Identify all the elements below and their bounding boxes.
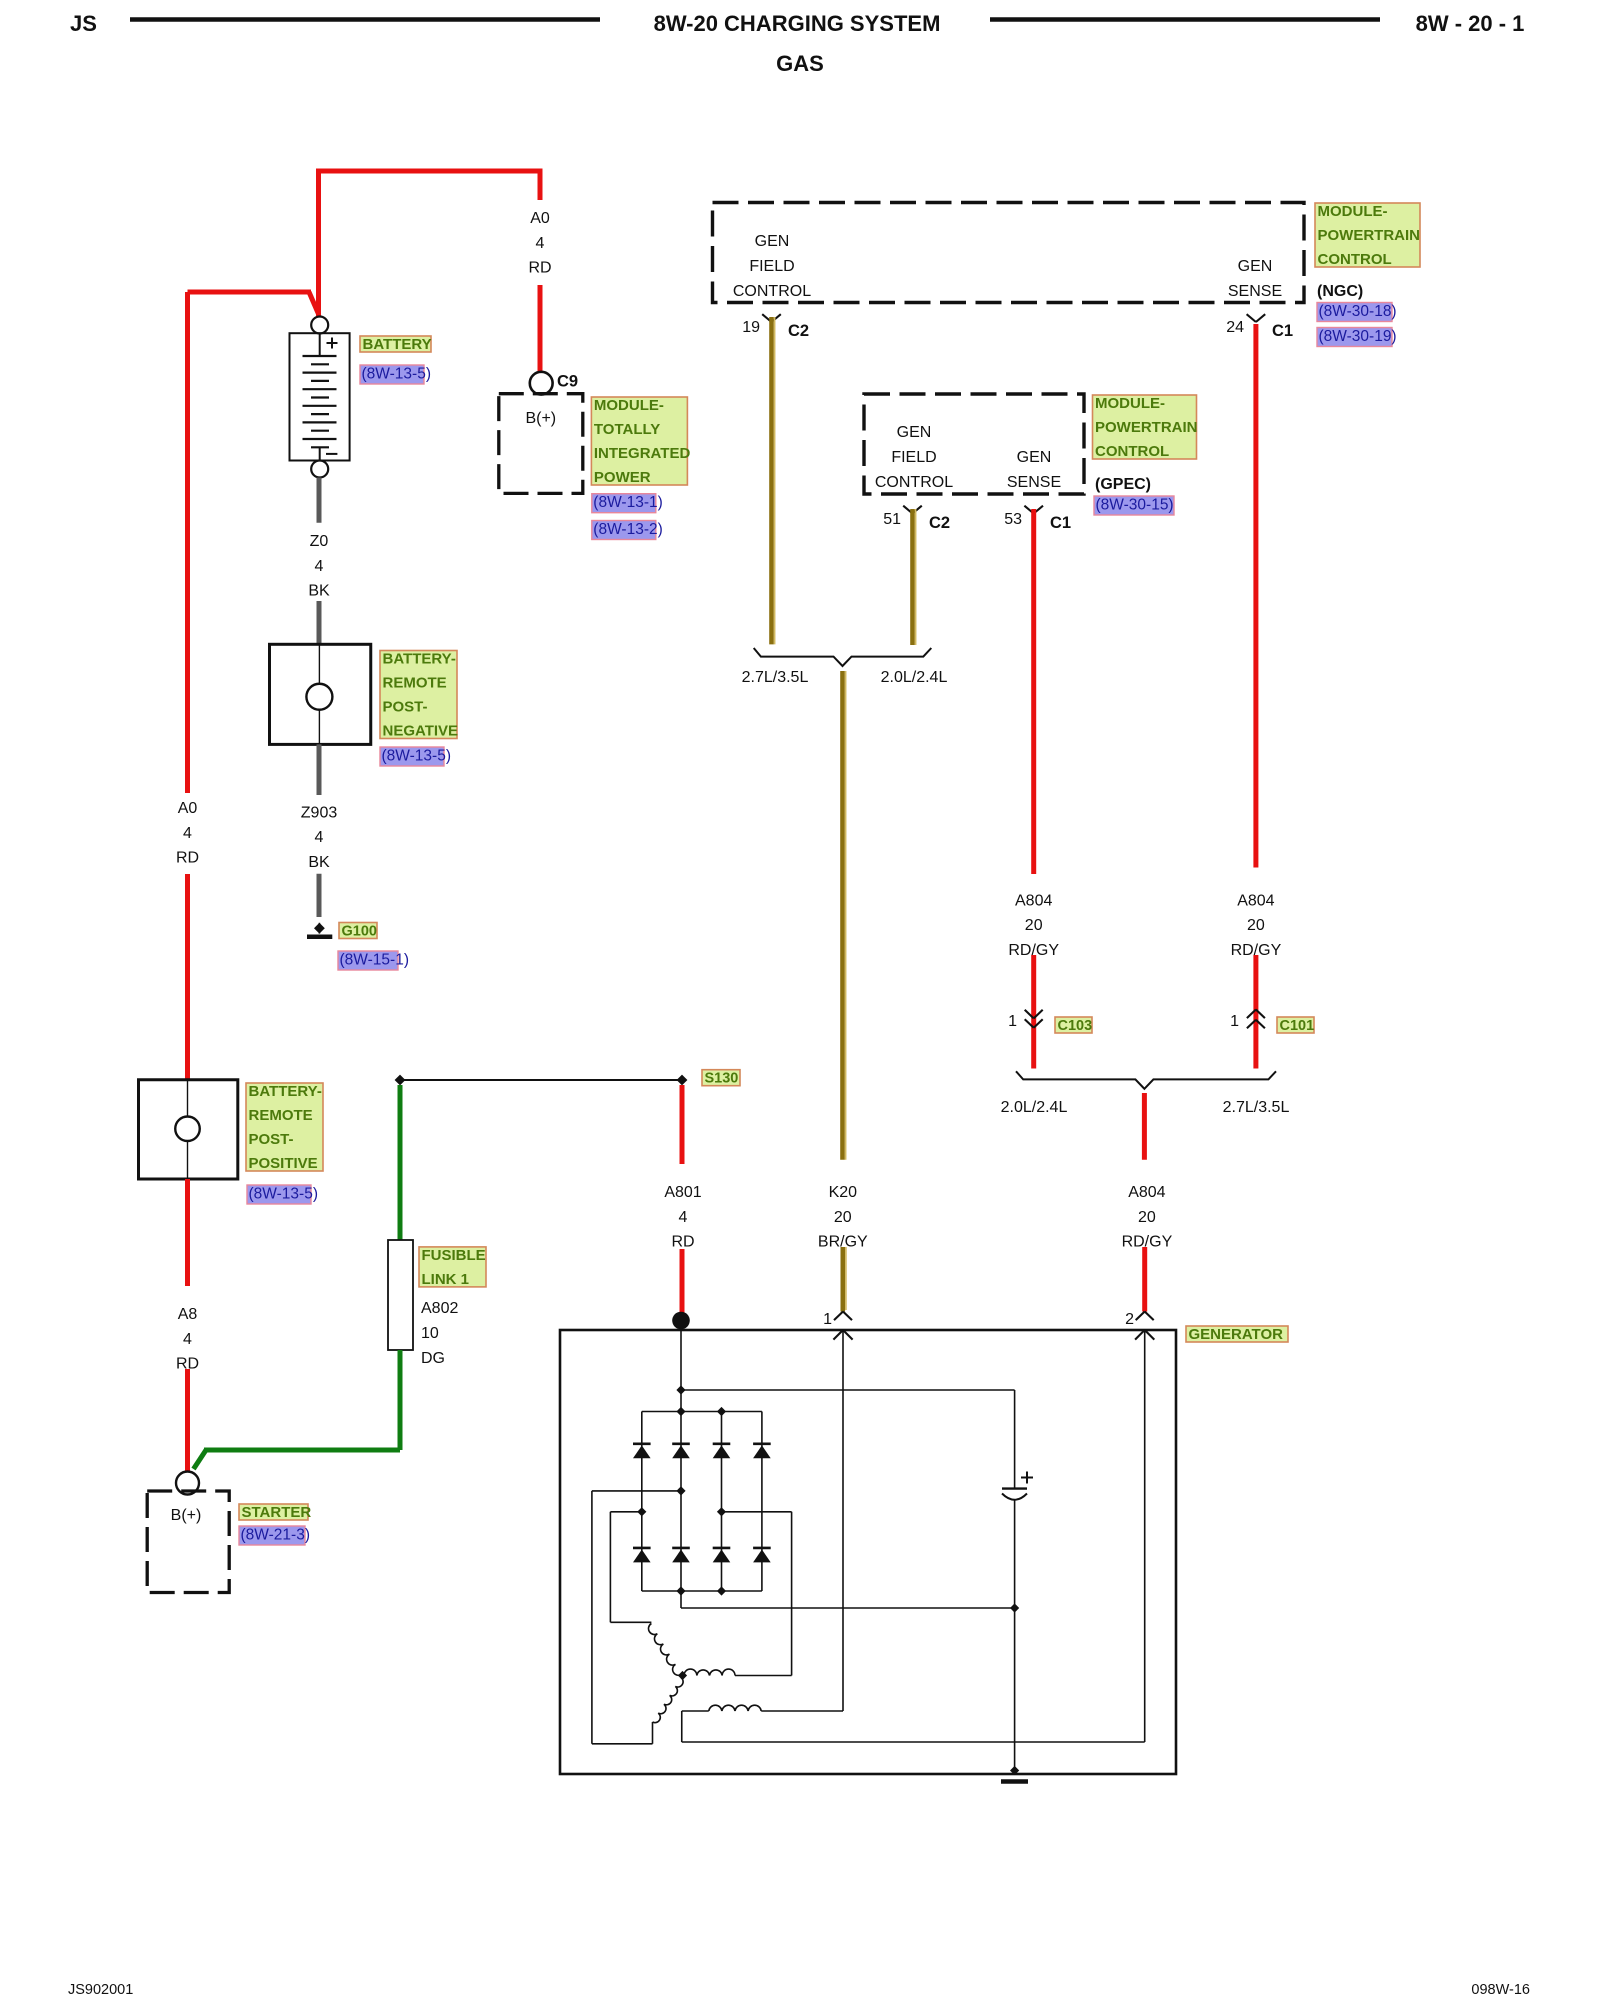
- svg-text:24: 24: [1226, 319, 1244, 336]
- label G100: [339, 923, 377, 939]
- splice S130: [400, 1079, 682, 1081]
- ground G100: [314, 923, 325, 934]
- svg-text:4: 4: [679, 1209, 688, 1226]
- svg-text:2.7L/3.5L: 2.7L/3.5L: [1223, 1099, 1290, 1116]
- generator pin 1 connector: [834, 1312, 843, 1321]
- svg-text:POWER: POWER: [594, 469, 651, 486]
- rectifier diodes top row: [633, 1443, 651, 1446]
- svg-text:C103: C103: [1058, 1018, 1093, 1034]
- pin 53 connector C1: [1024, 506, 1033, 514]
- svg-text:REMOTE: REMOTE: [383, 675, 447, 692]
- module TIPM box: [499, 394, 583, 494]
- wire gen field control from pin 19: [769, 317, 774, 644]
- svg-text:B(+): B(+): [171, 1507, 202, 1524]
- svg-text:(8W-21-3): (8W-21-3): [241, 1526, 310, 1543]
- generator terminal B+ junction: [672, 1312, 690, 1330]
- svg-text:4: 4: [536, 235, 545, 252]
- battery minus sign: [326, 453, 337, 455]
- pin2 internal vertical and field return: [1144, 1330, 1146, 1742]
- svg-text:BK: BK: [308, 583, 330, 600]
- svg-text:A0: A0: [530, 210, 550, 227]
- battery negative terminal: [311, 461, 328, 478]
- svg-text:JS: JS: [70, 11, 97, 36]
- junction capacitor to rectifier return: [1010, 1603, 1019, 1612]
- svg-text:B(+): B(+): [525, 410, 556, 427]
- svg-text:A804: A804: [1015, 892, 1052, 909]
- svg-text:10: 10: [421, 1325, 439, 1342]
- capacitor C: [1014, 1390, 1016, 1488]
- label BATTERY-REMOTE POST-NEGATIVE: [380, 651, 457, 739]
- capacitor plus sign: [1021, 1477, 1033, 1479]
- label (8W-13-5) positive post: [247, 1185, 311, 1204]
- stator center junction: [678, 1671, 687, 1680]
- svg-text:FUSIBLE: FUSIBLE: [422, 1247, 486, 1264]
- connector C103 inline: [1025, 1010, 1034, 1019]
- capacitor ground drop: [1014, 1608, 1016, 1773]
- svg-text:2.7L/3.5L: 2.7L/3.5L: [742, 669, 809, 686]
- label (8W-30-19): [1317, 328, 1392, 347]
- svg-text:FIELD: FIELD: [891, 449, 936, 466]
- svg-text:BK: BK: [308, 854, 330, 871]
- svg-text:A0: A0: [178, 800, 198, 817]
- pin 51 connector C2: [903, 506, 912, 514]
- stator coil phase 1: [649, 1624, 682, 1676]
- svg-text:4: 4: [315, 558, 324, 575]
- phase tap col1: [637, 1507, 646, 1516]
- label (8W-15-1): [338, 951, 398, 970]
- svg-text:POWERTRAIN: POWERTRAIN: [1095, 419, 1198, 436]
- diode bridge bottom bus: [642, 1590, 762, 1592]
- svg-text:4: 4: [183, 825, 192, 842]
- phase tap col2: [676, 1486, 685, 1495]
- generator box: [560, 1330, 1176, 1774]
- stator coil phase 2: [684, 1669, 735, 1675]
- module PCM GPEC box: [864, 394, 1084, 494]
- label (8W-13-5) negative post: [380, 747, 444, 766]
- diode column verticals: [641, 1412, 643, 1592]
- svg-text:20: 20: [1025, 917, 1043, 934]
- svg-text:CONTROL: CONTROL: [733, 283, 811, 300]
- svg-text:2.0L/2.4L: 2.0L/2.4L: [881, 669, 948, 686]
- label FUSIBLE LINK 1: [419, 1247, 486, 1287]
- svg-text:SENSE: SENSE: [1007, 474, 1061, 491]
- label (8W-30-18): [1317, 303, 1392, 322]
- label MODULE-POWERTRAIN CONTROL GPEC: [1093, 395, 1197, 459]
- svg-text:MODULE-: MODULE-: [594, 397, 664, 414]
- svg-text:A801: A801: [664, 1184, 701, 1201]
- svg-text:4: 4: [183, 1331, 192, 1348]
- wire A802 10 DG lower: [398, 1350, 403, 1450]
- svg-text:C101: C101: [1280, 1018, 1315, 1034]
- label (8W-30-15): [1094, 496, 1174, 515]
- svg-text:(8W-13-2): (8W-13-2): [593, 521, 662, 538]
- svg-text:20: 20: [1247, 917, 1265, 934]
- wire Z903 4 BK: [317, 744, 322, 795]
- wire highlight stripes: [774, 317, 776, 644]
- pin1 internal vertical: [842, 1330, 844, 1711]
- connector C9 circle: [530, 372, 553, 395]
- battery B1: [290, 333, 350, 460]
- svg-text:CONTROL: CONTROL: [1095, 443, 1169, 460]
- label (8W-13-5): [360, 365, 424, 384]
- svg-text:(8W-13-1): (8W-13-1): [593, 494, 662, 511]
- svg-text:INTEGRATED: INTEGRATED: [594, 445, 691, 462]
- svg-text:098W-16: 098W-16: [1471, 1982, 1530, 1998]
- rectifier diodes bottom row: [633, 1547, 651, 1550]
- svg-text:FIELD: FIELD: [749, 258, 794, 275]
- svg-text:A804: A804: [1237, 892, 1274, 909]
- label BATTERY: [360, 336, 431, 352]
- wire A801 4 RD: [680, 1085, 685, 1164]
- svg-text:NEGATIVE: NEGATIVE: [383, 723, 459, 740]
- svg-text:(8W-30-15): (8W-30-15): [1096, 496, 1174, 513]
- svg-text:1: 1: [1230, 1013, 1239, 1030]
- wire K20 20 BR/GY: [840, 671, 845, 1160]
- svg-text:Z903: Z903: [301, 805, 338, 822]
- svg-text:POWERTRAIN: POWERTRAIN: [1318, 227, 1421, 244]
- svg-text:GEN: GEN: [755, 233, 790, 250]
- svg-text:GAS: GAS: [776, 51, 824, 76]
- svg-text:K20: K20: [829, 1184, 858, 1201]
- svg-text:(8W-30-18): (8W-30-18): [1319, 303, 1397, 320]
- svg-text:LINK 1: LINK 1: [422, 1271, 470, 1288]
- battery-remote post-positive block: [139, 1080, 238, 1179]
- phase tap col3: [717, 1507, 726, 1516]
- svg-text:51: 51: [883, 511, 901, 528]
- svg-text:G100: G100: [342, 924, 377, 940]
- junction to capacitor feed: [676, 1385, 685, 1394]
- stator coil phase 3: [653, 1678, 684, 1723]
- engine variant brace top: [754, 648, 932, 666]
- label MODULE-TOTALLY INTEGRATED POWER: [591, 397, 687, 485]
- battery-remote post-negative block: [270, 644, 371, 744]
- svg-text:8W - 20 - 1: 8W - 20 - 1: [1416, 11, 1525, 36]
- svg-text:SENSE: SENSE: [1228, 283, 1282, 300]
- fusible link 1: [388, 1240, 413, 1350]
- wire Z0 4 BK: [317, 478, 322, 523]
- svg-text:C1: C1: [1050, 514, 1071, 532]
- svg-text:C9: C9: [557, 373, 578, 391]
- wire A0 4 RD left run: [185, 292, 190, 793]
- svg-text:BATTERY: BATTERY: [363, 336, 432, 353]
- svg-text:RD: RD: [528, 260, 551, 277]
- svg-text:(NGC): (NGC): [1317, 283, 1363, 300]
- label (8W-13-1): [592, 494, 656, 513]
- svg-text:POST-: POST-: [383, 699, 428, 716]
- label BATTERY-REMOTE POST-POSITIVE: [246, 1083, 323, 1171]
- wire gen sense from pin 53: [1031, 509, 1036, 874]
- svg-text:(8W-30-19): (8W-30-19): [1319, 328, 1397, 345]
- label (8W-13-2): [592, 521, 656, 540]
- svg-text:JS902001: JS902001: [68, 1982, 133, 1998]
- svg-text:CONTROL: CONTROL: [875, 474, 953, 491]
- svg-text:POST-: POST-: [249, 1131, 294, 1148]
- starter terminal circle: [176, 1472, 199, 1495]
- svg-text:A8: A8: [178, 1306, 198, 1323]
- svg-text:STARTER: STARTER: [242, 1504, 312, 1521]
- generator internal B+ vertical: [680, 1329, 682, 1412]
- svg-text:C1: C1: [1272, 322, 1293, 340]
- pin 19 connector C2: [762, 314, 771, 322]
- svg-text:RD: RD: [671, 1234, 694, 1251]
- battery positive terminal: [311, 317, 328, 334]
- svg-text:RD: RD: [176, 850, 199, 867]
- wire capacitor feed horizontal: [681, 1389, 1015, 1391]
- svg-text:BATTERY-: BATTERY-: [383, 651, 456, 668]
- svg-text:20: 20: [1138, 1209, 1156, 1226]
- wire gen field control from pin 51: [910, 509, 915, 645]
- svg-text:(8W-13-5): (8W-13-5): [249, 1185, 318, 1202]
- starter module box: [147, 1491, 229, 1593]
- battery plus sign: [327, 342, 338, 344]
- wire A802 10 DG upper: [398, 1085, 403, 1240]
- svg-text:C2: C2: [929, 514, 950, 532]
- svg-text:20: 20: [834, 1209, 852, 1226]
- label STARTER: [239, 1504, 308, 1520]
- svg-text:(8W-15-1): (8W-15-1): [340, 951, 409, 968]
- svg-text:1: 1: [1008, 1013, 1017, 1030]
- svg-text:C2: C2: [788, 322, 809, 340]
- label (8W-21-3): [239, 1526, 305, 1545]
- svg-text:19: 19: [742, 319, 760, 336]
- label GENERATOR: [1186, 1326, 1288, 1342]
- wire gen sense from pin 24: [1253, 324, 1258, 868]
- svg-text:8W-20 CHARGING SYSTEM: 8W-20 CHARGING SYSTEM: [654, 11, 941, 36]
- svg-text:DG: DG: [421, 1350, 445, 1367]
- svg-text:GEN: GEN: [1017, 449, 1052, 466]
- svg-text:(GPEC): (GPEC): [1095, 476, 1151, 493]
- svg-text:GEN: GEN: [897, 424, 932, 441]
- generator pin 2 connector: [1136, 1312, 1145, 1321]
- engine variant brace bottom: [1016, 1071, 1276, 1089]
- diode bridge top bus: [642, 1411, 762, 1413]
- field winding: [709, 1705, 761, 1711]
- svg-text:1: 1: [823, 1311, 832, 1328]
- svg-text:S130: S130: [705, 1071, 739, 1087]
- svg-text:A802: A802: [421, 1300, 458, 1317]
- svg-text:(8W-13-5): (8W-13-5): [382, 747, 451, 764]
- svg-text:REMOTE: REMOTE: [249, 1107, 313, 1124]
- wire A8 4 RD: [185, 1179, 190, 1286]
- label MODULE-POWERTRAIN CONTROL NGC: [1315, 203, 1420, 267]
- svg-text:(8W-13-5): (8W-13-5): [362, 365, 431, 382]
- svg-text:2.0L/2.4L: 2.0L/2.4L: [1001, 1099, 1068, 1116]
- svg-text:Z0: Z0: [310, 533, 329, 550]
- label S130: [702, 1070, 740, 1086]
- svg-text:BATTERY-: BATTERY-: [249, 1083, 322, 1100]
- svg-text:53: 53: [1004, 511, 1022, 528]
- pin 24 connector C1: [1247, 314, 1256, 322]
- svg-text:GENERATOR: GENERATOR: [1189, 1326, 1284, 1343]
- svg-text:POSITIVE: POSITIVE: [249, 1155, 318, 1172]
- module PCM NGC box: [713, 203, 1305, 303]
- connector C101 inline: [1247, 1010, 1256, 1019]
- svg-text:2: 2: [1125, 1311, 1134, 1328]
- svg-text:MODULE-: MODULE-: [1318, 203, 1388, 220]
- svg-text:GEN: GEN: [1238, 258, 1273, 275]
- svg-text:MODULE-: MODULE-: [1095, 395, 1165, 412]
- svg-text:CONTROL: CONTROL: [1318, 251, 1392, 268]
- wire A0 4 RD battery to TIPM C9: [319, 171, 541, 316]
- svg-text:A804: A804: [1128, 1184, 1165, 1201]
- wire A804 20 RD/GY combined: [1142, 1093, 1147, 1160]
- svg-text:4: 4: [315, 829, 324, 846]
- generator case ground: [1001, 1779, 1028, 1784]
- svg-text:TOTALLY: TOTALLY: [594, 421, 660, 438]
